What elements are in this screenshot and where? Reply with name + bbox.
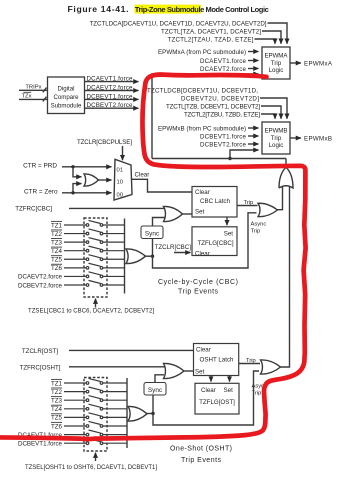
wire TZ5 input (OSHT) xyxy=(64,416,86,418)
svg-text:Compare: Compare xyxy=(53,94,79,101)
svg-text:TZFLG[CBC]: TZFLG[CBC] xyxy=(197,240,233,247)
gate OR up (async/trip combine) xyxy=(279,167,293,188)
gate OR osht trip xyxy=(261,360,281,374)
switch DCAEVT2.force (CBC) xyxy=(86,275,89,278)
wire mux clear out xyxy=(132,179,193,192)
svg-text:TZ3: TZ3 xyxy=(51,398,63,405)
svg-text:Sync: Sync xyxy=(148,387,163,394)
wire DCBEVT2.force to bus (CBC) xyxy=(103,284,125,286)
wire TZ3 input (OSHT) xyxy=(64,399,86,401)
svg-text:Cycle-by-Cycle (CBC): Cycle-by-Cycle (CBC) xyxy=(158,279,238,286)
svg-text:EPWMxA: EPWMxA xyxy=(304,60,333,67)
wire TZ6 to bus (OSHT) xyxy=(103,425,127,427)
svg-text:Trip: Trip xyxy=(246,358,256,364)
wire TZFRC[OSHT] xyxy=(69,366,166,368)
wire TZ5 to bus (CBC) xyxy=(103,258,125,260)
svg-text:TZCLR[OST]: TZCLR[OST] xyxy=(22,348,58,355)
gate AND osht events xyxy=(128,406,147,421)
svg-text:TZ5: TZ5 xyxy=(51,415,63,422)
wire TZ6 input (CBC) xyxy=(64,267,86,269)
block Digital Compare Submodule xyxy=(48,77,85,114)
svg-text:EPWMxA (from PC submodule): EPWMxA (from PC submodule) xyxy=(158,49,246,56)
svg-text:CTR = Zero: CTR = Zero xyxy=(24,189,58,196)
svg-text:TZFRC[OSHT]: TZFRC[OSHT] xyxy=(20,364,61,371)
svg-text:Set: Set xyxy=(224,387,234,394)
svg-text:TZCTL2[TZBU, TZBD, ETZE]: TZCTL2[TZBU, TZBD, ETZE] xyxy=(184,111,260,118)
wire osht bus xyxy=(126,378,128,448)
svg-text:TZCTLDCA[DCAEVT1U, DCAEVT1D, D: TZCTLDCA[DCAEVT1U, DCAEVT1D, DCAEVT2U, D… xyxy=(90,20,267,27)
svg-text:Figure 14-41.: Figure 14-41. xyxy=(68,4,129,14)
gate OR cbc trip xyxy=(258,203,278,216)
svg-text:Clear: Clear xyxy=(195,189,210,196)
wire sync up osht xyxy=(155,375,164,383)
wire TZ4 input (OSHT) xyxy=(64,408,86,410)
switch TZ4 (CBC) xyxy=(86,249,89,252)
svg-text:Clear: Clear xyxy=(201,387,216,394)
wire cbc trip riser xyxy=(277,187,283,210)
svg-text:CTR = PRD: CTR = PRD xyxy=(23,163,57,170)
wire DCAEVT2.force input (CBC) xyxy=(64,275,86,277)
switch DCBEVT1.force (OSHT) xyxy=(86,442,89,445)
wire DCAEVT1.force input (OSHT) xyxy=(64,434,86,436)
wire up-or output xyxy=(285,159,287,168)
switchbox CBC dashed xyxy=(84,218,107,297)
svg-text:Trip: Trip xyxy=(271,135,282,142)
wire TZ1 to bus (OSHT) xyxy=(103,382,127,384)
svg-text:One-Shot (OSHT): One-Shot (OSHT) xyxy=(170,446,232,453)
svg-text:Trip-Zone Submodule Mode Contr: Trip-Zone Submodule Mode Control Logic xyxy=(135,5,269,14)
svg-text:EPWMxB: EPWMxB xyxy=(304,135,332,142)
wire TZ3 to bus (CBC) xyxy=(103,241,125,243)
switchbox OSHT dashed xyxy=(84,378,107,452)
svg-text:Sync: Sync xyxy=(145,230,160,237)
svg-text:TZCLR[CBCPULSE]: TZCLR[CBCPULSE] xyxy=(77,139,132,146)
svg-text:DCBEVT2.force: DCBEVT2.force xyxy=(200,141,247,148)
wire cbc bus xyxy=(124,219,126,294)
wire TZFRC[CBC] xyxy=(69,207,165,209)
block U2 EPWMB Trip Logic xyxy=(262,122,290,154)
wire latch to flag set xyxy=(229,376,231,382)
svg-text:Trip Events: Trip Events xyxy=(178,289,219,296)
svg-text:Submodule: Submodule xyxy=(51,103,82,110)
wire trip to EPWMA xyxy=(152,74,259,159)
svg-text:01: 01 xyxy=(117,167,123,173)
wire TZ5 to bus (OSHT) xyxy=(103,416,127,418)
svg-text:TZSEL[CBC1 to CBC6, DCAEVT2, D: TZSEL[CBC1 to CBC6, DCAEVT2, DCBEVT2] xyxy=(28,309,154,315)
switch TZ1 (CBC) xyxy=(86,224,89,227)
wire DCAEVT2.force to bus (CBC) xyxy=(103,275,125,277)
node ctr zero junction xyxy=(71,191,74,194)
svg-text:TZCLR[CBC]: TZCLR[CBC] xyxy=(155,244,192,251)
node ctr prd junction xyxy=(71,165,74,168)
svg-text:DCAEVT2.force: DCAEVT2.force xyxy=(18,274,63,281)
svg-text:EPWMxB (from PC submodule): EPWMxB (from PC submodule) xyxy=(158,125,246,132)
switch TZ6 (CBC) xyxy=(86,267,89,270)
svg-text:DCBEVT1.force: DCBEVT1.force xyxy=(200,133,247,140)
wire TZ6 input (OSHT) xyxy=(64,425,86,427)
wire TZ2 input (OSHT) xyxy=(64,391,86,393)
wire osht gate out xyxy=(147,413,154,415)
switch TZ2 (CBC) xyxy=(86,232,89,235)
gate OR osht set xyxy=(164,363,185,378)
svg-text:OSHT Latch: OSHT Latch xyxy=(200,356,234,363)
svg-text:Digital: Digital xyxy=(58,86,75,93)
wire bracket A2 xyxy=(262,31,281,44)
wire cbc latch trip out xyxy=(237,205,258,207)
svg-text:Set: Set xyxy=(195,368,205,375)
wire cbc gate out xyxy=(145,255,153,257)
svg-text:TZ6: TZ6 xyxy=(51,265,63,272)
svg-text:TZ6: TZ6 xyxy=(51,423,63,430)
svg-text:Trip: Trip xyxy=(244,200,254,206)
wire EPWMxB output xyxy=(290,137,301,139)
wire TZ1 to bus (CBC) xyxy=(103,224,125,226)
wire sync down cbc xyxy=(152,239,154,257)
wire sync down osht xyxy=(152,395,154,414)
svg-text:Logic: Logic xyxy=(269,142,284,149)
wire TRIPx xyxy=(19,89,48,91)
switch TZ3 (CBC) xyxy=(86,241,89,244)
svg-text:TZ2: TZ2 xyxy=(51,231,63,238)
wire DCAEVT1.force out xyxy=(85,81,139,83)
wire trip to EPWMB xyxy=(230,150,259,159)
svg-text:Logic: Logic xyxy=(269,67,284,74)
switch TZ4 (OSHT) xyxy=(86,408,89,411)
wire cbc set or out xyxy=(182,213,193,215)
wire CTR=Zero xyxy=(62,192,112,194)
svg-text:Clear: Clear xyxy=(196,346,211,353)
block TZFLG[OST] xyxy=(195,383,239,414)
wire bracket A1 xyxy=(268,23,288,44)
block Sync cbc xyxy=(141,226,163,239)
wire latch to flag clear xyxy=(210,376,212,382)
wire or to mux xyxy=(98,179,112,181)
wire bracket A3 xyxy=(255,39,276,44)
wire osht async path xyxy=(153,371,259,425)
switch rows CBC xyxy=(18,220,125,289)
svg-text:Trip: Trip xyxy=(271,60,282,67)
svg-text:CBC Latch: CBC Latch xyxy=(200,198,230,205)
svg-text:DCAEVT1.force: DCAEVT1.force xyxy=(200,58,247,65)
svg-text:DCBEVT1.force: DCBEVT1.force xyxy=(18,441,63,448)
gate OR cbc set xyxy=(164,206,183,221)
block TZFLG[CBC] xyxy=(192,227,237,256)
block CBC Latch xyxy=(192,187,237,218)
node trip junction B xyxy=(228,157,231,160)
wire TZCLR[CBC] arrow xyxy=(174,252,191,254)
wire TZ4 to bus (OSHT) xyxy=(103,408,127,410)
wire DCAEVT1.force arrow xyxy=(248,60,259,62)
wire osht latch trip out xyxy=(239,363,260,365)
switch DCBEVT2.force (CBC) xyxy=(86,284,89,287)
wire sync up cbc xyxy=(153,218,165,227)
wire osht set or out xyxy=(184,370,194,372)
block Sync osht xyxy=(144,383,166,396)
svg-text:DCBEVT2.force: DCBEVT2.force xyxy=(18,282,63,289)
gate OR ctr xyxy=(84,174,99,186)
svg-text:DCAEVT2.force: DCAEVT2.force xyxy=(200,66,247,73)
wire TZ1 input (CBC) xyxy=(64,224,86,226)
wire DCAEVT2.force arrow xyxy=(248,68,259,70)
svg-text:TZ4: TZ4 xyxy=(51,248,63,255)
svg-text:TZ1: TZ1 xyxy=(51,380,63,387)
svg-text:TZ1: TZ1 xyxy=(51,222,63,229)
svg-text:TZCTL[TZA, DCAEVT1, DCAEVT2]: TZCTL[TZA, DCAEVT1, DCAEVT2] xyxy=(161,28,261,35)
switch TZ2 (OSHT) xyxy=(86,390,89,393)
wire cbc async path xyxy=(153,213,257,268)
svg-text:10: 10 xyxy=(117,179,123,185)
wire CTR=PRD xyxy=(62,166,112,168)
wire TZCLR[OST] xyxy=(69,349,194,351)
svg-text:TZ4: TZ4 xyxy=(51,406,63,413)
wire EPWMxB input arrow xyxy=(248,127,259,129)
svg-text:TZFRC[CBC]: TZFRC[CBC] xyxy=(15,206,52,213)
wire TZCLR[CBCPULSE] arrow xyxy=(122,146,124,160)
wire DCBEVT1.force to bus (OSHT) xyxy=(103,442,127,444)
switch DCAEVT1.force (OSHT) xyxy=(86,433,89,436)
title highlight xyxy=(135,5,202,14)
switch TZ5 (CBC) xyxy=(86,258,89,261)
wire trip bus horizontal xyxy=(152,158,286,160)
wire DCBEVT1.force out xyxy=(85,98,139,100)
red annotation marker loop xyxy=(0,75,306,440)
svg-text:TZ2: TZ2 xyxy=(51,389,63,396)
wire DCAEVT2.force out xyxy=(85,90,139,92)
block OSHT Latch xyxy=(194,344,239,376)
svg-text:EPWMB: EPWMB xyxy=(265,128,288,135)
label TZSEL OSHT xyxy=(95,453,97,461)
wire zero to or xyxy=(73,184,82,193)
wire TZ2 to bus (CBC) xyxy=(103,233,125,235)
svg-text:Trip: Trip xyxy=(251,229,261,235)
wire TZ5 input (CBC) xyxy=(64,258,86,260)
wire TZ2 to bus (OSHT) xyxy=(103,391,127,393)
svg-text:TZFLG[OST]: TZFLG[OST] xyxy=(199,399,235,406)
svg-text:TZCTL[TZB, DCBEVT1, DCBEVT2]: TZCTL[TZB, DCBEVT1, DCBEVT2] xyxy=(166,103,260,110)
switch TZ6 (OSHT) xyxy=(86,425,89,428)
wire DCBEVT2.force input (CBC) xyxy=(64,284,86,286)
svg-text:EPWMA: EPWMA xyxy=(265,53,289,60)
wire DCBEVT2.force out xyxy=(85,107,139,109)
svg-text:TZ3: TZ3 xyxy=(51,239,63,246)
wire bracket B1 xyxy=(260,98,287,119)
node osht and junction xyxy=(151,412,154,415)
mux CBC clear select xyxy=(114,159,132,200)
wire TZx xyxy=(19,98,48,100)
wire bracket B2 xyxy=(261,106,281,119)
wire TZ4 input (CBC) xyxy=(64,250,86,252)
wire TZ2 input (CBC) xyxy=(64,233,86,235)
switch rows OSHT xyxy=(18,378,127,447)
wire EPWMxA input arrow xyxy=(248,51,259,53)
wire latch to flag set xyxy=(226,217,228,225)
wire TZ3 input (CBC) xyxy=(64,241,86,243)
svg-text:Clear: Clear xyxy=(195,250,210,257)
switch TZ1 (OSHT) xyxy=(86,382,89,385)
switch TZ3 (OSHT) xyxy=(86,399,89,402)
svg-text:TZCTLDCB[DCBEVT1U, DCBEVT1D,: TZCTLDCB[DCBEVT1U, DCBEVT1D, xyxy=(147,87,258,94)
svg-text:Set: Set xyxy=(195,209,205,216)
svg-text:Async: Async xyxy=(251,222,267,228)
label TZSEL CBC xyxy=(95,299,97,308)
svg-text:TZx: TZx xyxy=(22,93,32,99)
wire DCBEVT1.force input (OSHT) xyxy=(64,442,86,444)
wire DCBEVT2.force arrow xyxy=(248,143,259,145)
switch TZ5 (OSHT) xyxy=(86,416,89,419)
wire TZ1 input (OSHT) xyxy=(64,382,86,384)
gate AND cbc events xyxy=(126,249,146,264)
wire TZ3 to bus (OSHT) xyxy=(103,399,127,401)
wire DCBEVT1.force arrow xyxy=(248,135,259,137)
wire TZ4 to bus (CBC) xyxy=(103,250,125,252)
wire EPWMxA output xyxy=(290,62,301,64)
wire prd to or xyxy=(73,167,82,177)
block U1 EPWMA Trip Logic xyxy=(262,47,290,79)
svg-text:TZCTL2[TZAU, TZAD, ETZE]: TZCTL2[TZAU, TZAD, ETZE] xyxy=(168,36,254,43)
wire osht trip riser xyxy=(280,187,290,367)
svg-text:TZSEL[OSHT1 to OSHT6, DCAEVT1,: TZSEL[OSHT1 to OSHT6, DCAEVT1, DCBEVT1] xyxy=(25,465,157,471)
svg-text:TZ5: TZ5 xyxy=(51,257,63,264)
svg-text:Clear: Clear xyxy=(135,172,150,179)
svg-text:Set: Set xyxy=(224,230,234,237)
wire DCAEVT1.force to bus (OSHT) xyxy=(103,434,127,436)
svg-text:DCBEVT2U, DCBEVT2D]: DCBEVT2U, DCBEVT2D] xyxy=(181,95,259,102)
node cbc and junction xyxy=(151,255,154,258)
svg-text:TRIPx: TRIPx xyxy=(25,84,41,90)
wire TZ6 to bus (CBC) xyxy=(103,267,125,269)
svg-text:00: 00 xyxy=(117,192,123,198)
wire bracket B3 xyxy=(261,114,275,119)
svg-text:Trip Events: Trip Events xyxy=(181,457,222,464)
